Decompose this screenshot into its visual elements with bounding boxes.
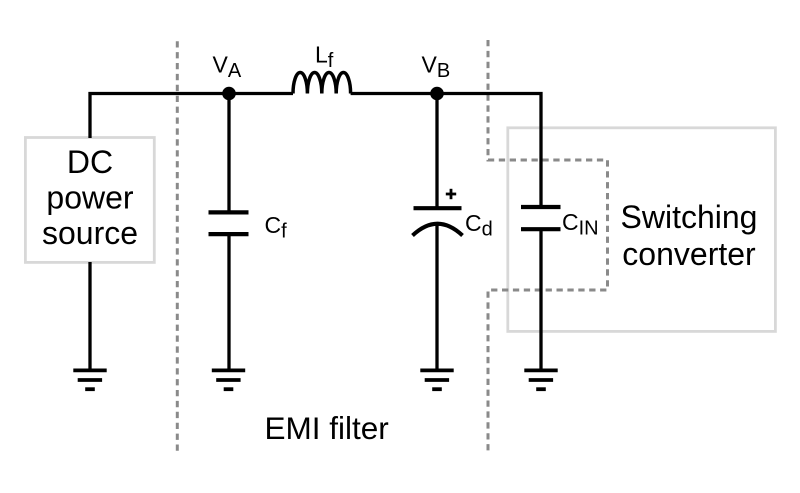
- svg-text:VB: VB: [422, 52, 451, 83]
- svg-text:Switching: Switching: [621, 199, 758, 235]
- wire Cd to ground: [435, 224, 438, 370]
- ground below DC power source: [73, 370, 106, 389]
- wire VA to Cf: [227, 94, 230, 211]
- DC power source box: [25, 138, 154, 263]
- wire VB to Cd: [435, 94, 438, 207]
- wire DC power source bottom to ground: [88, 262, 91, 370]
- capacitor CIN: [521, 207, 561, 229]
- svg-text:power: power: [46, 179, 134, 215]
- switching converter box: [508, 128, 776, 332]
- inductor Lf: [293, 72, 351, 93]
- svg-text:VA: VA: [213, 52, 242, 83]
- ground below Cf: [212, 370, 245, 389]
- capacitor Cd: [413, 189, 463, 236]
- ground below CIN: [524, 370, 557, 389]
- EMI filter boundary right (dashed): [488, 40, 608, 455]
- svg-text:source: source: [42, 215, 138, 251]
- node VA: [222, 87, 236, 101]
- svg-text:Cd: Cd: [465, 210, 493, 241]
- svg-text:Cf: Cf: [265, 212, 288, 243]
- svg-text:converter: converter: [622, 236, 756, 272]
- wire CIN to ground: [539, 231, 542, 370]
- wire from DC power source top to main rail: [90, 94, 293, 139]
- svg-text:CIN: CIN: [562, 209, 599, 240]
- wire from inductor to CIN branch corner: [351, 94, 541, 208]
- EMI filter boundary left (dashed): [176, 41, 179, 455]
- svg-text:Lf: Lf: [315, 42, 334, 73]
- capacitor Cf: [209, 212, 249, 234]
- svg-text:EMI filter: EMI filter: [265, 410, 389, 446]
- ground below Cd: [420, 370, 453, 389]
- node VB: [430, 87, 444, 101]
- wire Cf to ground: [227, 236, 230, 370]
- svg-text:DC: DC: [67, 144, 113, 180]
